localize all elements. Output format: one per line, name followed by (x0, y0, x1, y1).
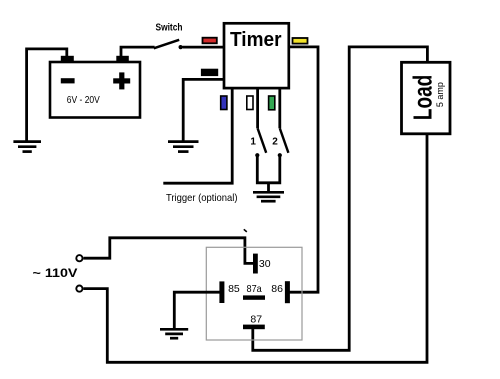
wire load bottom to AC neutral (83, 134, 427, 362)
timer U1 (224, 23, 289, 88)
terminal black (202, 70, 218, 76)
relay pin 85 (219, 281, 224, 303)
ground (timer black lead) (168, 142, 199, 152)
wire timer black lead to ground (183, 79, 224, 141)
svg-text:85: 85 (228, 283, 240, 295)
wire battery positive to switch (121, 47, 155, 56)
relay pin 87 (243, 325, 265, 330)
terminal yellow (293, 38, 308, 44)
terminal red (203, 38, 217, 44)
switch S1 (154, 40, 183, 49)
battery B1 (50, 56, 140, 118)
svg-text:Timer: Timer (230, 28, 282, 51)
wire switch to timer (183, 46, 225, 49)
wire battery negative to ground (27, 49, 67, 141)
svg-text:5 amp: 5 amp (435, 82, 445, 107)
svg-text:~ 110V: ~ 110V (33, 266, 78, 280)
timer contact 2 wire (278, 88, 281, 128)
relay pin 87a (243, 295, 265, 299)
AC terminal (neutral) (76, 286, 82, 292)
wire timer trigger lead (163, 88, 232, 183)
svg-text:86: 86 (271, 283, 283, 295)
ground (battery negative) (13, 142, 41, 152)
svg-text:Load: Load (408, 75, 438, 120)
svg-text:30: 30 (259, 258, 271, 270)
wire relay pin 85 to ground (174, 292, 219, 328)
svg-text:Trigger (optional): Trigger (optional) (166, 192, 238, 204)
terminal green (269, 96, 275, 110)
terminal blue (221, 96, 227, 110)
svg-text:Switch: Switch (156, 22, 183, 34)
svg-text:87: 87 (250, 314, 262, 326)
load LD1 (402, 62, 451, 134)
wire timer output to relay pin 86 (289, 47, 318, 292)
timer contact 2 blade (280, 128, 289, 153)
svg-text:6V - 20V: 6V - 20V (67, 95, 100, 106)
wire relay pin 87 to load top (253, 47, 428, 350)
relay pin 86 (285, 281, 290, 303)
timer contact 1 blade (258, 128, 267, 153)
timer contact 1 wire (256, 88, 259, 128)
svg-text:2: 2 (272, 137, 278, 148)
ground (relay pin 85) (160, 329, 188, 338)
relay pin 30 (253, 254, 258, 274)
wire contacts to ground (257, 155, 280, 191)
timer contact 2 pole (278, 153, 282, 157)
stray mark (244, 229, 247, 232)
AC terminal (hot) (76, 255, 82, 261)
wire AC hot to relay pin 30 (83, 238, 253, 264)
terminal white (247, 96, 253, 110)
svg-text:87a: 87a (247, 283, 262, 295)
ground (timer contacts) (253, 192, 284, 201)
svg-text:1: 1 (250, 137, 256, 148)
timer contact 1 pole (255, 153, 259, 157)
relay box (206, 247, 302, 340)
